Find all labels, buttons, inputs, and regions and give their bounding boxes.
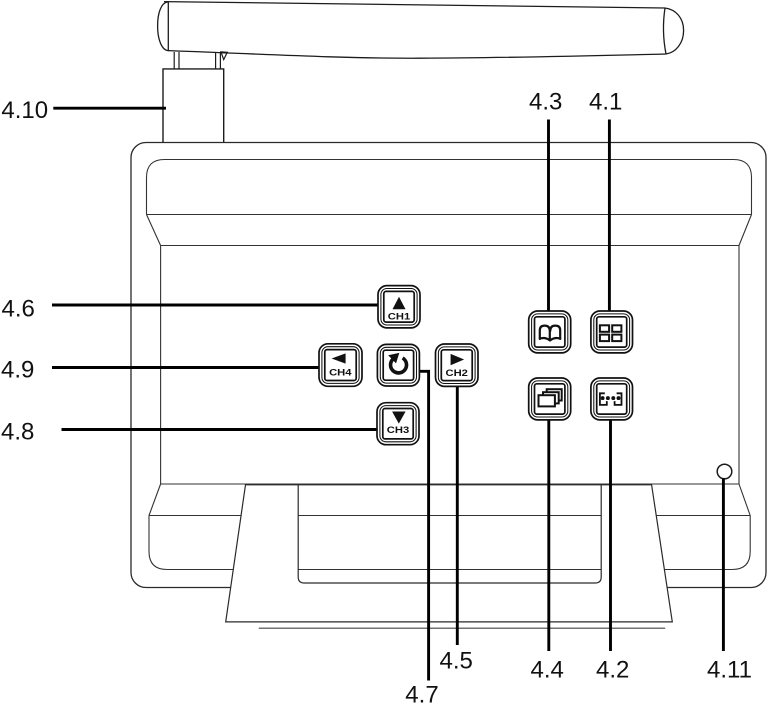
svg-text:4.5: 4.5 xyxy=(440,647,473,674)
svg-text:CH4: CH4 xyxy=(329,368,352,378)
svg-text:4.11: 4.11 xyxy=(707,656,752,683)
svg-text:4.2: 4.2 xyxy=(596,656,629,683)
svg-text:CH2: CH2 xyxy=(445,368,468,378)
svg-text:CH3: CH3 xyxy=(387,426,410,436)
svg-text:4.6: 4.6 xyxy=(2,295,35,322)
svg-text:4.9: 4.9 xyxy=(1,357,34,384)
svg-text:CH1: CH1 xyxy=(388,312,411,322)
svg-text:4.4: 4.4 xyxy=(531,656,564,683)
svg-text:4.3: 4.3 xyxy=(529,88,562,115)
svg-text:4.7: 4.7 xyxy=(405,681,438,708)
svg-text:4.1: 4.1 xyxy=(589,88,622,115)
svg-text:4.8: 4.8 xyxy=(1,419,34,446)
svg-text:4.10: 4.10 xyxy=(1,97,48,124)
